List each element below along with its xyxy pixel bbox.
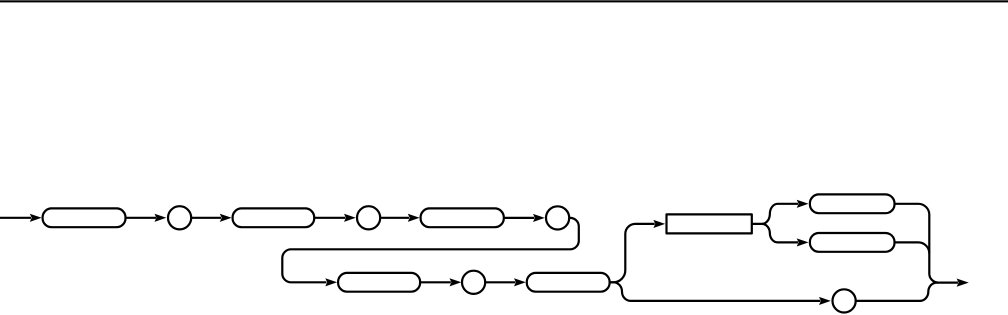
wire — [126, 217, 157, 219]
arrowhead into circle 1 — [155, 214, 167, 222]
circle symbol 3 — [546, 206, 569, 229]
exit arrowhead — [957, 278, 969, 286]
arrowhead into box 7 — [797, 238, 809, 246]
arrowhead into non-terminal box — [653, 220, 665, 228]
wire — [380, 217, 409, 219]
top rule — [0, 0, 1008, 2]
wire from box 7 to right merge — [895, 242, 930, 253]
wrap-around wire to second row — [282, 218, 579, 282]
exit wire — [937, 282, 958, 284]
arrowhead into box 3 — [408, 214, 420, 222]
terminal box 5 — [527, 273, 610, 292]
wire — [485, 281, 515, 283]
arrowhead into circle 5 — [819, 297, 831, 305]
arrowhead into circle 3 — [533, 214, 545, 222]
terminal box 3 — [421, 208, 504, 227]
start wire — [0, 217, 31, 219]
fork wire lower to box 7 — [762, 224, 798, 243]
arrowhead into box 5 — [514, 278, 526, 286]
arrowhead into box 4 — [325, 278, 337, 286]
bypass wire down from box 5 — [610, 282, 821, 301]
arrowhead into box 2 — [220, 214, 232, 222]
start arrowhead — [30, 214, 42, 222]
circle symbol 4 — [462, 271, 485, 294]
terminal box 1 — [43, 208, 126, 227]
non-terminal box — [667, 214, 752, 233]
arrowhead into circle 4 — [450, 278, 462, 286]
terminal box 7 — [810, 233, 895, 252]
arrowhead into circle 2 — [344, 214, 356, 222]
terminal box 6 — [810, 194, 895, 213]
fork wire upper to box 6 — [752, 204, 798, 224]
wire — [191, 217, 221, 219]
wire from box 6 to right merge — [895, 204, 939, 283]
terminal box 2 — [233, 208, 315, 227]
wire — [504, 217, 535, 219]
arrowhead into box 6 — [797, 200, 809, 208]
terminal box 4 — [338, 273, 420, 292]
circle symbol 5 — [833, 289, 856, 312]
circle symbol 1 — [168, 206, 191, 229]
wire — [314, 217, 345, 219]
circle symbol 2 — [357, 206, 380, 229]
wire — [420, 281, 451, 283]
branch wire up to non-terminal box — [610, 224, 655, 282]
wire from circle 5 up to merge — [856, 283, 937, 301]
